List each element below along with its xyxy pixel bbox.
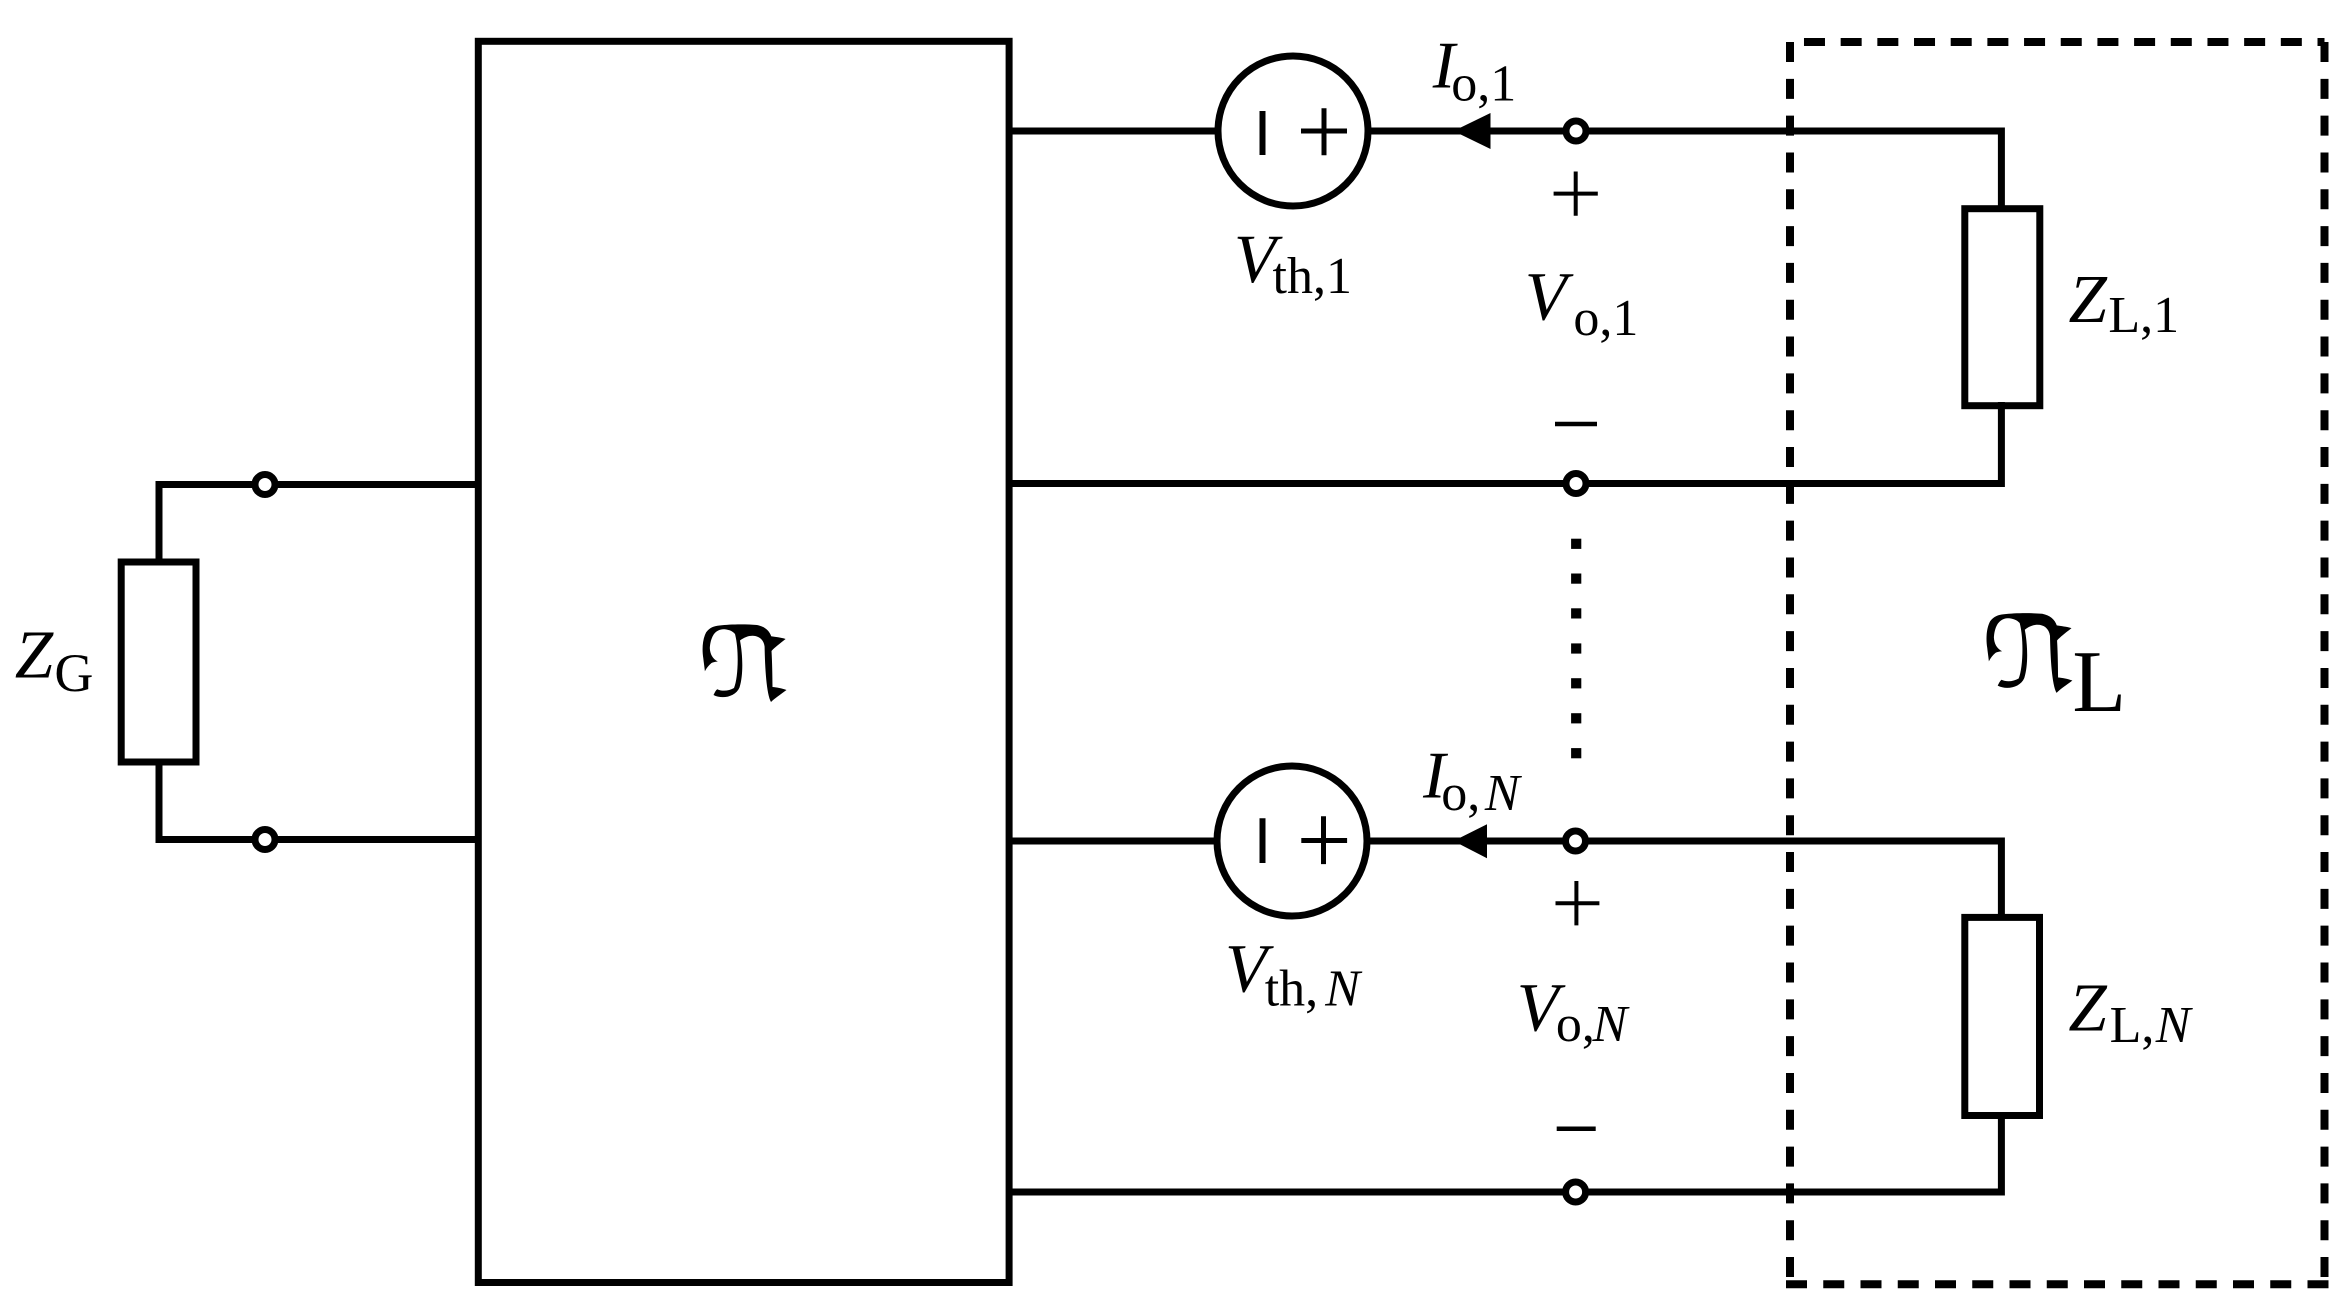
- node terminal bottom left: [255, 830, 275, 850]
- svg-text:N: N: [1484, 765, 1523, 822]
- plus sign Vo1: [1554, 172, 1598, 216]
- wire ZL1 to bottom wire: [1009, 402, 2001, 484]
- voltage source Vth1: [1218, 56, 1368, 206]
- wire from box to source: [1009, 128, 1220, 135]
- svg-text:V: V: [1525, 258, 1574, 334]
- wire top left: [159, 485, 480, 566]
- current arrow Io1: [1454, 113, 1491, 149]
- wire ZLN to bottom wire: [1009, 1112, 2001, 1192]
- node terminal port1 +: [1566, 121, 1586, 141]
- dotted ellipsis: [1571, 539, 1581, 759]
- svg-text:th,1: th,1: [1273, 248, 1352, 305]
- load ZL1: [1965, 209, 2040, 406]
- svg-text:L,1: L,1: [2108, 287, 2179, 344]
- voltage source VthN: [1217, 766, 1367, 916]
- svg-text:o,1: o,1: [1573, 290, 1638, 347]
- svg-text:Z: Z: [2068, 970, 2107, 1046]
- wire from box to source: [1009, 838, 1219, 845]
- load network label fraktur N_L: [1987, 613, 2073, 693]
- minus sign VoN: [1557, 1127, 1596, 1132]
- wire bottom left: [159, 759, 480, 840]
- wire source to ZL1 branch: [1368, 131, 2001, 212]
- node terminal top left: [255, 475, 275, 495]
- node terminal port1 -: [1566, 474, 1586, 494]
- wire source to ZLN branch: [1367, 841, 2001, 920]
- svg-text:th,: th,: [1265, 961, 1318, 1018]
- plus sign VoN: [1556, 881, 1600, 925]
- svg-text:G: G: [54, 643, 93, 703]
- svg-text:o,: o,: [1556, 996, 1595, 1053]
- svg-text:L,: L,: [2110, 997, 2155, 1054]
- resistor ZG: [121, 562, 196, 762]
- svg-text:N: N: [1592, 996, 1631, 1053]
- svg-text:N: N: [2155, 997, 2194, 1054]
- svg-text:Z: Z: [15, 617, 54, 693]
- svg-text:o,: o,: [1441, 765, 1480, 822]
- load ZLN: [1965, 917, 2040, 1115]
- network label fraktur N: [703, 624, 787, 702]
- current arrow IoN: [1454, 824, 1488, 858]
- svg-text:Z: Z: [2069, 261, 2108, 337]
- node terminal portN +: [1566, 831, 1586, 851]
- minus sign Vo1: [1555, 422, 1597, 427]
- big N-port network box: [478, 41, 1009, 1282]
- svg-text:L: L: [2072, 634, 2126, 731]
- dashed load network box: [1786, 42, 2329, 1284]
- svg-text:N: N: [1324, 961, 1363, 1018]
- node terminal portN -: [1566, 1182, 1586, 1202]
- svg-text:o,1: o,1: [1451, 56, 1516, 113]
